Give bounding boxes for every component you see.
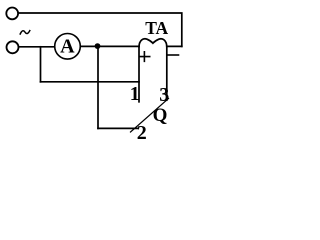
polarity minus mark: [167, 54, 179, 56]
wire: node drop down to bottom: [97, 46, 99, 128]
wire: terminal X2 to ammeter: [19, 46, 54, 48]
wire: left drop from X2 wire down: [40, 47, 42, 82]
switch Q blade: [131, 99, 169, 133]
wire: TA right terminal link: [167, 45, 182, 47]
terminal X2 (lower): [7, 41, 19, 53]
svg-text:Q: Q: [153, 105, 168, 126]
ammeter PA circle: [55, 34, 81, 60]
terminal X1 (top): [6, 7, 18, 19]
svg-text:1: 1: [130, 83, 140, 105]
wire: switch contact 1 vertical: [138, 46, 140, 101]
svg-text:3: 3: [159, 84, 169, 106]
node junction dot: [95, 43, 101, 49]
wire: bottom to switch terminal 2: [98, 127, 138, 129]
svg-text:TA: TA: [145, 18, 168, 38]
AC source tilde: [20, 31, 30, 34]
polarity plus mark: [139, 52, 149, 62]
wire: lower horizontal to switch terminal 1: [41, 81, 140, 83]
wire: ammeter to node, to TA left terminal: [81, 45, 139, 47]
wire: switch contact 3 vertical: [166, 46, 168, 100]
wire top: terminal X1 to right edge, down to TA right terminal: [19, 13, 182, 46]
svg-text:2: 2: [137, 122, 147, 144]
current transformer TA secondary winding: [139, 39, 167, 47]
svg-text:A: A: [60, 35, 75, 57]
